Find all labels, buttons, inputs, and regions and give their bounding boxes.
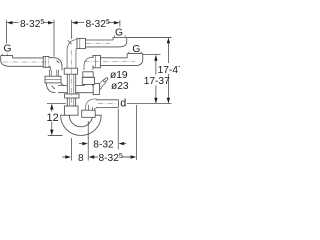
svg-text:ø23: ø23 — [111, 81, 129, 92]
elbow lower-right inlet down (T4) — [88, 62, 94, 70]
nut on left pipe — [43, 57, 49, 68]
nut on right drop — [83, 72, 93, 77]
arrowhead 8-32.5 bottom right — [131, 155, 137, 158]
centerline upper-right pipe — [86, 43, 111, 45]
arrowhead 17-37 bottom — [154, 98, 157, 104]
svg-text:G: G — [115, 27, 123, 38]
svg-text:G: G — [4, 44, 12, 55]
outlet pipe d — [96, 100, 118, 108]
extension line dim2 left — [71, 20, 73, 39]
trap inlet nut — [64, 106, 78, 115]
arrowhead 8-32.5 bottom left — [89, 155, 95, 158]
nut on lower-right pipe — [93, 55, 101, 67]
extension line dim1 left — [6, 20, 8, 44]
dimension line 8 and 8-32.5 bottom — [62, 156, 133, 158]
dimension line 8-32.5 top right — [72, 22, 119, 24]
manifold pipe — [58, 86, 95, 93]
G2 plane reference line — [127, 37, 172, 39]
extension line bottom right — [136, 105, 138, 160]
trap outlet nut — [82, 110, 96, 117]
manifold end block — [93, 84, 99, 95]
arrowhead 17-47 bottom — [167, 98, 170, 104]
trap outlet elbow — [88, 104, 96, 111]
outlet d reference line — [127, 103, 172, 105]
centerline lower-right pipe — [84, 61, 135, 63]
extension line dim1 right — [53, 20, 55, 57]
arrowhead 12 bottom — [50, 130, 53, 136]
tee socket on right drop — [82, 77, 94, 84]
dimension line 8-32 — [79, 143, 126, 145]
arrowhead dim1 left — [7, 21, 13, 24]
upper-right inlet elbow down (T3) — [68, 40, 80, 68]
dimension line 17-47 — [167, 38, 169, 103]
svg-text:12: 12 — [47, 112, 59, 124]
left inlet pipe with G1 union — [1, 54, 44, 67]
arrowhead 8 left — [65, 155, 71, 158]
svg-text:17-47: 17-47 — [158, 65, 180, 76]
nut on middle drop — [64, 68, 77, 74]
right drop tube — [84, 74, 92, 86]
arrowhead 8-32 left — [82, 142, 88, 145]
tube below left elbow — [50, 70, 59, 77]
nut above manifold elbow — [45, 76, 61, 83]
centerline left inlet pipe — [3, 61, 50, 63]
arrowhead dim1 right — [48, 21, 54, 24]
dimension 12 lines — [47, 104, 66, 136]
lower-right inlet pipe with G3 union — [100, 52, 143, 66]
arrowhead 17-47 top — [167, 38, 170, 44]
dimension line 17-37 — [155, 55, 157, 103]
extension line pipe end — [117, 109, 119, 150]
upper-right inlet pipe with G2 union — [84, 35, 127, 47]
G3 plane reference line — [143, 54, 161, 56]
collar on middle drop — [65, 94, 79, 98]
dishwasher nozzle — [97, 77, 109, 88]
svg-text:8: 8 — [78, 153, 84, 164]
centerline outlet pipe d — [98, 103, 117, 105]
svg-text:17-37: 17-37 — [144, 76, 170, 87]
svg-text:8-32: 8-32 — [93, 139, 114, 150]
elbow left inlet down (T1a) — [49, 58, 62, 71]
centerline middle drop — [71, 50, 73, 105]
svg-text:d: d — [120, 98, 126, 110]
arrowhead 17-37 top — [154, 55, 157, 61]
middle drop tube — [67, 72, 75, 107]
svg-text:ø19: ø19 — [110, 70, 128, 81]
extension line dim2 right — [119, 20, 121, 27]
arrowhead dim2 left — [72, 21, 78, 24]
trap U-bend — [61, 115, 102, 135]
arrowhead dim2 right — [114, 21, 120, 24]
manifold elbow left (T1b) — [46, 83, 66, 93]
extension line trap outlet — [87, 121, 89, 161]
arrowhead 8-32 right — [119, 142, 125, 145]
nut on upper-right pipe — [77, 38, 86, 48]
extension line trap inlet — [71, 138, 73, 161]
arrowhead 12 top — [50, 104, 53, 110]
dimension line 8-32.5 top left — [7, 22, 54, 24]
svg-text:G: G — [132, 44, 140, 55]
